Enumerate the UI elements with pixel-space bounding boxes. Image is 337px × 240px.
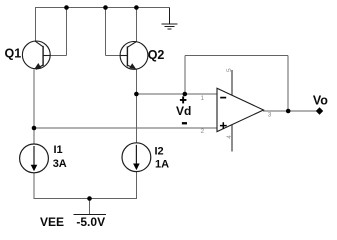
svg-text:I1: I1: [54, 144, 63, 156]
svg-text:VEE: VEE: [40, 215, 64, 229]
svg-text:Q2: Q2: [148, 48, 165, 62]
svg-text:1: 1: [201, 95, 205, 102]
svg-text:2: 2: [201, 128, 205, 135]
svg-text:4: 4: [226, 135, 233, 139]
svg-text:3: 3: [268, 112, 272, 119]
svg-text:Vo: Vo: [313, 93, 328, 107]
svg-text:3A: 3A: [53, 158, 67, 170]
svg-text:1A: 1A: [155, 159, 169, 171]
svg-text:5: 5: [226, 68, 233, 72]
svg-text:Vd: Vd: [176, 104, 191, 118]
svg-text:Q1: Q1: [5, 47, 22, 61]
svg-text:I2: I2: [155, 146, 164, 158]
svg-text:-5.0V: -5.0V: [76, 215, 105, 229]
